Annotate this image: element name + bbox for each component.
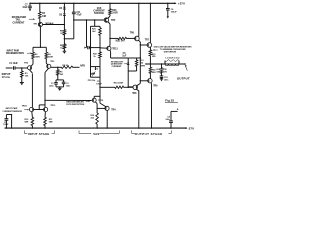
wire TR8 collector <box>136 89 138 91</box>
wire TR13 base <box>100 47 107 49</box>
transistor TR7 output <box>140 44 147 46</box>
svg-text:1uF: 1uF <box>122 56 127 58</box>
transistor TR5 <box>109 15 111 16</box>
node damper junctions <box>164 63 165 64</box>
svg-text:1V rms: 1V rms <box>2 75 11 79</box>
svg-text:PR1 10k: PR1 10k <box>88 80 96 82</box>
resistor R2 <box>32 47 34 52</box>
wire V- rail <box>5 127 187 129</box>
svg-text:CURRENT: CURRENT <box>112 66 123 68</box>
resistor base stopper <box>118 37 127 39</box>
wire annotation arrow bias <box>124 63 126 65</box>
node +37V terminal <box>174 3 176 5</box>
svg-text:INPUT STAGE: INPUT STAGE <box>28 132 49 136</box>
svg-text:OUTPUT: OUTPUT <box>177 76 190 80</box>
wire VAS current source bias box <box>94 20 96 26</box>
svg-text:CURRENT: CURRENT <box>13 21 25 24</box>
capacitor C7 <box>29 3 31 6</box>
wire TR2 collector <box>30 70 33 73</box>
wire degeneration bar <box>33 46 46 48</box>
wire feedback shunt split <box>57 75 59 80</box>
trimmer PR1 box <box>91 66 101 68</box>
transistor TR13 bias <box>109 39 111 45</box>
wire TR1 base <box>43 24 65 26</box>
resistor R5 <box>63 25 65 30</box>
wire TR4 collector <box>100 103 106 107</box>
svg-text:INPUT PAIR: INPUT PAIR <box>6 107 18 110</box>
node TR9 base junction <box>140 80 141 81</box>
transistor TR4 VAS <box>105 106 109 110</box>
resistor R3 <box>45 47 47 52</box>
svg-text:68R: 68R <box>49 121 53 123</box>
svg-text:NFB: NFB <box>141 65 146 67</box>
wire TR3 collector <box>45 68 49 72</box>
wire annotation arrow beta <box>86 100 89 102</box>
svg-text:100uF: 100uF <box>3 124 9 126</box>
capacitor C1 input <box>6 67 13 69</box>
capacitor C8 rail decoupling <box>170 123 172 129</box>
svg-text:TR11: TR11 <box>50 105 56 107</box>
wire VAS collector column <box>99 77 101 103</box>
capacitor C11 <box>73 3 75 12</box>
svg-text:SOURCE: SOURCE <box>94 12 104 15</box>
svg-text:TR10: TR10 <box>22 106 28 108</box>
svg-text:100uF: 100uF <box>171 12 178 14</box>
wire TR5 emitter to VAS node <box>108 22 110 24</box>
resistor R16 emitter <box>149 64 151 67</box>
svg-text:100nF: 100nF <box>96 84 102 86</box>
svg-text:DISTORTION: DISTORTION <box>164 52 177 54</box>
diode D3 <box>63 9 65 13</box>
diode bias trimmer <box>127 63 129 65</box>
svg-text:R14 100R: R14 100R <box>114 81 124 84</box>
svg-text:CURRENT MIRROR: CURRENT MIRROR <box>2 111 22 113</box>
wire TR7 collector <box>149 41 151 44</box>
resistor R12 zobel <box>161 64 163 68</box>
resistor R11 mirror <box>44 112 46 118</box>
transistor TR1 <box>38 22 42 26</box>
svg-text:DEGENERATION: DEGENERATION <box>6 52 24 55</box>
svg-text:100R: 100R <box>112 13 118 15</box>
svg-text:100R: 100R <box>48 57 53 59</box>
resistor R9 <box>57 67 59 69</box>
capacitor C3 <box>63 80 65 82</box>
wire annotation arrow to TR1 <box>29 18 33 20</box>
wire TR12 emitter to TR4 base <box>95 102 97 104</box>
wire V+ rail <box>30 2 175 4</box>
capacitor Cdom <box>86 20 88 48</box>
diode D4 <box>63 3 65 7</box>
wire TR13 emitter <box>109 50 112 51</box>
ground below R1 <box>21 77 23 82</box>
transistor TR3 <box>45 59 47 64</box>
wire R14 feed <box>100 86 115 88</box>
ground feedback <box>56 86 64 88</box>
svg-text:INPUT PAIR: INPUT PAIR <box>7 49 20 52</box>
node input bias junction <box>21 67 22 68</box>
svg-text:TR12: TR12 <box>98 100 104 102</box>
resistor R23 <box>109 3 111 9</box>
wire bias box bottom <box>128 70 136 72</box>
wire TR9 collector <box>150 83 153 84</box>
resistor R13 <box>136 58 138 60</box>
wire VAS collector to TR6 base <box>110 37 118 39</box>
svg-text:R8 10k: R8 10k <box>62 65 69 67</box>
capacitor C9 input return <box>5 118 9 120</box>
svg-text:10R: 10R <box>156 71 160 73</box>
svg-text:100R: 100R <box>35 57 40 59</box>
svg-text:CUTS DISTORTION: CUTS DISTORTION <box>66 104 85 106</box>
svg-text:C1 10uF: C1 10uF <box>9 63 18 65</box>
svg-text:MJE 340: MJE 340 <box>116 40 126 43</box>
label OUTPUT STAGE bracket <box>132 131 135 134</box>
wire TR5 emitter line <box>74 19 104 21</box>
wire beta-enhancer drive <box>45 99 92 101</box>
svg-text:OUTPUT STAGE: OUTPUT STAGE <box>135 132 163 136</box>
transistor TR11 <box>44 107 48 111</box>
resistor R15 emitter <box>149 47 151 48</box>
svg-text:68R: 68R <box>25 121 29 123</box>
wire annotation arrow degeneration <box>27 52 30 54</box>
node output terminal <box>184 63 186 65</box>
svg-text:-37V: -37V <box>188 127 195 131</box>
svg-text:NFB: NFB <box>80 65 85 67</box>
svg-text:100u: 100u <box>165 119 170 121</box>
wire TR8 emitter <box>137 83 140 85</box>
capacitor C12 zobel <box>161 73 163 75</box>
svg-text:Fig 33: Fig 33 <box>165 98 174 102</box>
label INPUT STAGE bracket <box>24 131 27 134</box>
resistor R1 <box>21 68 23 71</box>
wire annotation arrow mirror <box>24 109 27 111</box>
wire mirror base bar <box>34 109 44 111</box>
svg-text:10R: 10R <box>163 71 167 73</box>
svg-text:+37V: +37V <box>178 2 185 6</box>
resistor R21 <box>99 26 101 28</box>
svg-text:47uF: 47uF <box>76 14 82 17</box>
node diode-chain / C11 junction <box>63 35 65 39</box>
wire diode chain to TR1 base node <box>63 15 65 24</box>
inductor L1 <box>165 64 179 66</box>
resistor R4 <box>39 3 41 12</box>
wire output node line <box>146 63 185 65</box>
svg-text:VAS: VAS <box>93 132 99 136</box>
wire TR1 tail <box>39 27 41 48</box>
svg-text:10R: 10R <box>42 16 46 18</box>
resistor R22 <box>99 52 102 58</box>
resistor R19 <box>96 108 98 113</box>
svg-text:10uF: 10uF <box>22 7 28 9</box>
capacitor C2 <box>55 80 57 83</box>
resistor R10 mirror <box>31 112 34 118</box>
resistor R14 <box>115 86 124 88</box>
resistor R8 feedback <box>58 66 62 68</box>
wire TR3 base to feedback <box>51 66 58 68</box>
wire TR12 collector <box>93 96 95 98</box>
transistor TR8 driver <box>133 85 138 90</box>
node -37V terminal <box>185 127 187 129</box>
transistor TR6 driver <box>138 3 140 36</box>
wire TR4 emitter to rail <box>106 110 108 128</box>
resistor R6 <box>63 39 65 44</box>
node feedback junction <box>57 67 58 68</box>
transistor TR12 <box>92 98 96 102</box>
wire C11 to junction <box>73 14 75 39</box>
svg-text:TR13: TR13 <box>112 48 118 50</box>
wire TR6 emitter <box>138 40 140 42</box>
svg-text:L1 10uH 1 ohm: L1 10uH 1 ohm <box>166 57 180 59</box>
transistor TR10 <box>30 107 34 111</box>
resistor L1 damper <box>164 61 166 64</box>
capacitor C6 rail decoupling <box>167 3 169 8</box>
wire bias generator box <box>140 57 141 58</box>
transistor TR2 <box>32 59 34 65</box>
label VAS bracket <box>79 131 91 134</box>
ground below R6 <box>63 49 65 51</box>
transistor TR9 output <box>148 79 152 83</box>
ground zobel <box>160 78 163 80</box>
wire TR5 collector <box>108 16 110 18</box>
